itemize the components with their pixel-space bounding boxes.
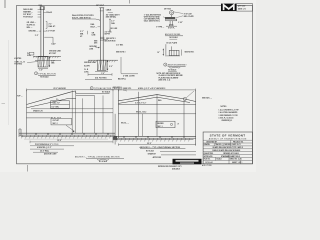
svg-text:CONC.: CONC.	[84, 72, 90, 74]
svg-text:DIA. FOOTING: DIA. FOOTING	[95, 77, 107, 80]
title row 2	[204, 143, 241, 146]
svg-text:5" PIPE —: 5" PIPE —	[156, 26, 164, 28]
svg-text:3'-2": 3'-2"	[35, 35, 39, 37]
svg-text:SEE NOTE 3: SEE NOTE 3	[116, 52, 126, 54]
svg-text:POST BOLT: POST BOLT	[23, 17, 33, 19]
detail B footing	[97, 60, 106, 70]
svg-text:CABLE GUARD RAIL ANCHORAGE: CABLE GUARD RAIL ANCHORAGE	[212, 149, 241, 152]
svg-text:SOIL: SOIL	[27, 55, 31, 57]
svg-text:MIN. —: MIN. —	[27, 27, 33, 29]
svg-text:POST SPACING 6'-3" C. TO C.: POST SPACING 6'-3" C. TO C.	[35, 143, 59, 146]
svg-text:ANCHOR I — TYPICAL LONGITUDINA: ANCHOR I — TYPICAL LONGITUDINAL SECTION	[75, 155, 120, 158]
note 4	[219, 117, 234, 122]
svg-text:2'-0": 2'-0"	[109, 66, 113, 68]
elev L outlet box	[51, 118, 75, 132]
elev R dim row 1	[118, 143, 195, 146]
detail C1 right leaders	[174, 12, 195, 24]
detail A offset dim	[44, 37, 56, 45]
detail B depth leader	[118, 57, 138, 80]
detail C2 dims	[157, 49, 194, 56]
title row 1	[206, 141, 244, 143]
detail B ground labels	[84, 62, 97, 67]
svg-text:OUTLET: OUTLET	[53, 120, 59, 122]
svg-text:2'-1": 2'-1"	[49, 23, 53, 25]
detail C2 channel box	[165, 50, 180, 56]
fold mark bottom-left	[27, 165, 29, 172]
elev R buried box	[156, 121, 179, 128]
detail A ground line	[33, 56, 61, 60]
fold mark top-center	[129, 0, 131, 4]
detail B footing left labels	[84, 69, 90, 73]
svg-text:(SEE STD. C-1): (SEE STD. C-1)	[159, 80, 171, 82]
svg-text:BOLT —: BOLT —	[91, 26, 98, 28]
elev R top dim	[118, 87, 195, 91]
logo side box	[237, 4, 253, 12]
detail B right dim	[105, 19, 118, 36]
detail B caption	[90, 87, 132, 94]
svg-text:2 1/2": 2 1/2"	[178, 22, 183, 24]
detail B top note	[96, 5, 105, 7]
signature line 1	[146, 150, 196, 153]
margin tick mid-left	[2, 103, 6, 105]
svg-text:25'-0" RAIL: 25'-0" RAIL	[40, 149, 49, 152]
svg-text:INV. EL. —: INV. EL. —	[121, 123, 129, 125]
elev L horizontals	[26, 96, 113, 120]
svg-text:12'-6": 12'-6"	[57, 140, 62, 142]
detail B ground note	[89, 46, 99, 50]
svg-text:4 SPACES @ 6'-3": 4 SPACES @ 6'-3"	[37, 146, 52, 149]
detail B post	[99, 8, 104, 71]
svg-text:AGENCY OF TRANSPORTATION: AGENCY OF TRANSPORTATION	[209, 137, 247, 140]
svg-text:NOTES: NOTES	[221, 106, 228, 108]
svg-text:SEC. 2: SEC. 2	[53, 123, 58, 125]
svg-text:ANCHOR II — TYP. LONGITUDINAL: ANCHOR II — TYP. LONGITUDINAL SECTION	[140, 146, 181, 149]
microfilm stamp	[158, 159, 202, 171]
svg-text:WHERE REQ D.: WHERE REQ D.	[222, 120, 233, 122]
fold mark top-left	[4, 0, 6, 8]
svg-text:5/8" BOLT: 5/8" BOLT	[96, 5, 105, 7]
detail C1 bolt circle	[169, 10, 173, 17]
detail C1 left text	[144, 13, 165, 22]
detail B right top labels	[106, 9, 121, 19]
svg-text:FILE NO.: FILE NO.	[204, 159, 211, 161]
elev L rail lines	[27, 91, 110, 108]
detail B footing dim	[107, 60, 113, 70]
detail A mid-left labels	[27, 22, 37, 29]
detail B post bolts	[100, 37, 104, 40]
svg-text:RAIL HT.: RAIL HT.	[49, 25, 57, 28]
detail B anchor box note	[94, 38, 116, 44]
detail B left text block	[72, 15, 100, 21]
svg-text:MIN.: MIN.	[51, 63, 55, 65]
svg-text:GR. LINE: GR. LINE	[110, 28, 117, 30]
elev R verticals	[118, 90, 195, 145]
detail C notes	[157, 72, 184, 82]
detail A footing	[38, 57, 48, 67]
svg-text:SHEET 1 OF 1: SHEET 1 OF 1	[232, 162, 242, 164]
svg-text:BURIED: BURIED	[158, 123, 165, 125]
elev L caption	[75, 155, 124, 163]
svg-text:SLOPE: SLOPE	[84, 66, 91, 68]
svg-text:GROUND —: GROUND —	[28, 31, 38, 33]
detail B bottom dims	[85, 72, 112, 80]
logo M block	[221, 4, 237, 12]
title grid	[203, 140, 252, 164]
detail B mid text	[92, 32, 97, 36]
svg-text:4 SPA. @ 6'-3" = 25'-0" ANCHOR: 4 SPA. @ 6'-3" = 25'-0" ANCHOR II	[138, 87, 166, 90]
svg-text:ANCHOR DETAIL: ANCHOR DETAIL	[165, 33, 181, 36]
svg-text:ANCHOR ASSEMBLY: ANCHOR ASSEMBLY	[168, 64, 188, 67]
detail B ground line	[88, 60, 118, 62]
svg-text:SEE NOTE 1: SEE NOTE 1	[185, 51, 195, 53]
svg-text:6'-0" POST: 6'-0" POST	[46, 31, 56, 33]
svg-text:8"x8" PL.: 8"x8" PL.	[168, 27, 176, 29]
detail A lower labels	[28, 31, 56, 38]
detail C2 caption	[164, 63, 188, 72]
svg-text:SEE NOTE 3: SEE NOTE 3	[106, 38, 116, 40]
title row 6	[204, 155, 240, 158]
border frame	[17, 6, 253, 164]
fold crease	[8, 40, 10, 125]
svg-text:CHECKED: CHECKED	[224, 144, 233, 146]
svg-text:5/8" ROD: 5/8" ROD	[164, 8, 172, 10]
svg-text:TOP —: TOP —	[17, 96, 23, 98]
svg-text:GUARD RAIL ANCHORS TYPE I AND: GUARD RAIL ANCHORS TYPE I AND II	[212, 146, 243, 149]
detail C1 bearing plate	[165, 17, 177, 29]
detail A post	[39, 4, 45, 57]
svg-text:1'-6": 1'-6"	[39, 69, 43, 71]
svg-text:REVISED 8-71 B.H.D.: REVISED 8-71 B.H.D.	[223, 153, 239, 155]
elev R end marker	[183, 91, 194, 101]
svg-text:25'-0" ANCHOR: 25'-0" ANCHOR	[53, 87, 66, 90]
elev L base band	[19, 129, 115, 139]
svg-text:REPRODUCED FROM BEST COPY: REPRODUCED FROM BEST COPY	[158, 166, 182, 168]
svg-text:1'-6": 1'-6"	[101, 73, 105, 75]
svg-text:TYPICAL SECTION: TYPICAL SECTION	[38, 72, 56, 75]
svg-text:2'-1": 2'-1"	[111, 21, 115, 23]
signature line 2	[148, 153, 196, 156]
detail B mid-left labels	[91, 23, 101, 28]
elev L dim row 3	[30, 146, 64, 149]
elev L dim row 1	[30, 140, 113, 143]
detail A footing dims	[38, 57, 55, 72]
svg-text:L.NOTES: L.NOTES	[14, 58, 22, 60]
svg-text:DESIGNED BY: DESIGNED BY	[206, 141, 217, 143]
svg-text:SEC. 3: SEC. 3	[158, 126, 163, 128]
elev R rail lines	[118, 95, 195, 104]
svg-text:3'-6" MIN.: 3'-6" MIN.	[116, 45, 124, 47]
svg-text:C-1): C-1)	[124, 90, 128, 92]
svg-text:PROJECT NO.: PROJECT NO.	[233, 141, 244, 143]
title row 7	[204, 158, 243, 161]
svg-text:10": 10"	[157, 52, 160, 54]
svg-text:(SEE STD.: (SEE STD.	[124, 88, 132, 90]
title row 8	[205, 161, 242, 164]
svg-text:3'-6" MIN.: 3'-6" MIN.	[105, 31, 113, 33]
title block outline	[203, 132, 252, 164]
detail A footing note	[14, 61, 38, 65]
svg-text:1'-10": 1'-10"	[51, 43, 56, 45]
detail A right bracket	[46, 22, 56, 29]
elev R caption	[140, 146, 186, 149]
svg-text:STATE OF VERMONT: STATE OF VERMONT	[210, 133, 246, 137]
detail A left labels	[23, 8, 41, 19]
detail B right notes	[116, 45, 126, 54]
title row 5	[204, 152, 240, 155]
svg-text:SEE DWG. —: SEE DWG. —	[202, 98, 212, 100]
svg-text:AT POST: AT POST	[49, 52, 57, 55]
detail C2 rods	[166, 44, 172, 55]
svg-text:DEPTH: DEPTH	[105, 34, 111, 36]
detail A caption	[35, 72, 57, 79]
elev L dim row 4	[33, 149, 58, 152]
elev R base band	[113, 136, 196, 141]
elev L dim row 2	[30, 143, 74, 146]
svg-text:25'-0": 25'-0"	[147, 143, 152, 145]
svg-text:ANCHOR II: ANCHOR II	[113, 86, 122, 89]
svg-text:6'-3" 6'-3" 6'-3": 6'-3" 6'-3" 6'-3"	[135, 102, 146, 104]
detail A plate block	[27, 52, 34, 57]
svg-text:GROUND LINE: GROUND LINE	[84, 62, 97, 64]
elev R horizontals	[118, 102, 195, 113]
elev L top dim	[27, 87, 114, 91]
elev L verticals	[27, 90, 116, 145]
svg-text:W6x8.5: W6x8.5	[46, 12, 52, 14]
detail B left dim bracket	[80, 31, 88, 38]
detail C1 caption	[165, 33, 183, 39]
elev L rail box	[51, 101, 70, 109]
svg-text:FOOTING: FOOTING	[14, 64, 22, 66]
svg-text:INV. EL. 610.2: INV. EL. 610.2	[136, 112, 146, 114]
